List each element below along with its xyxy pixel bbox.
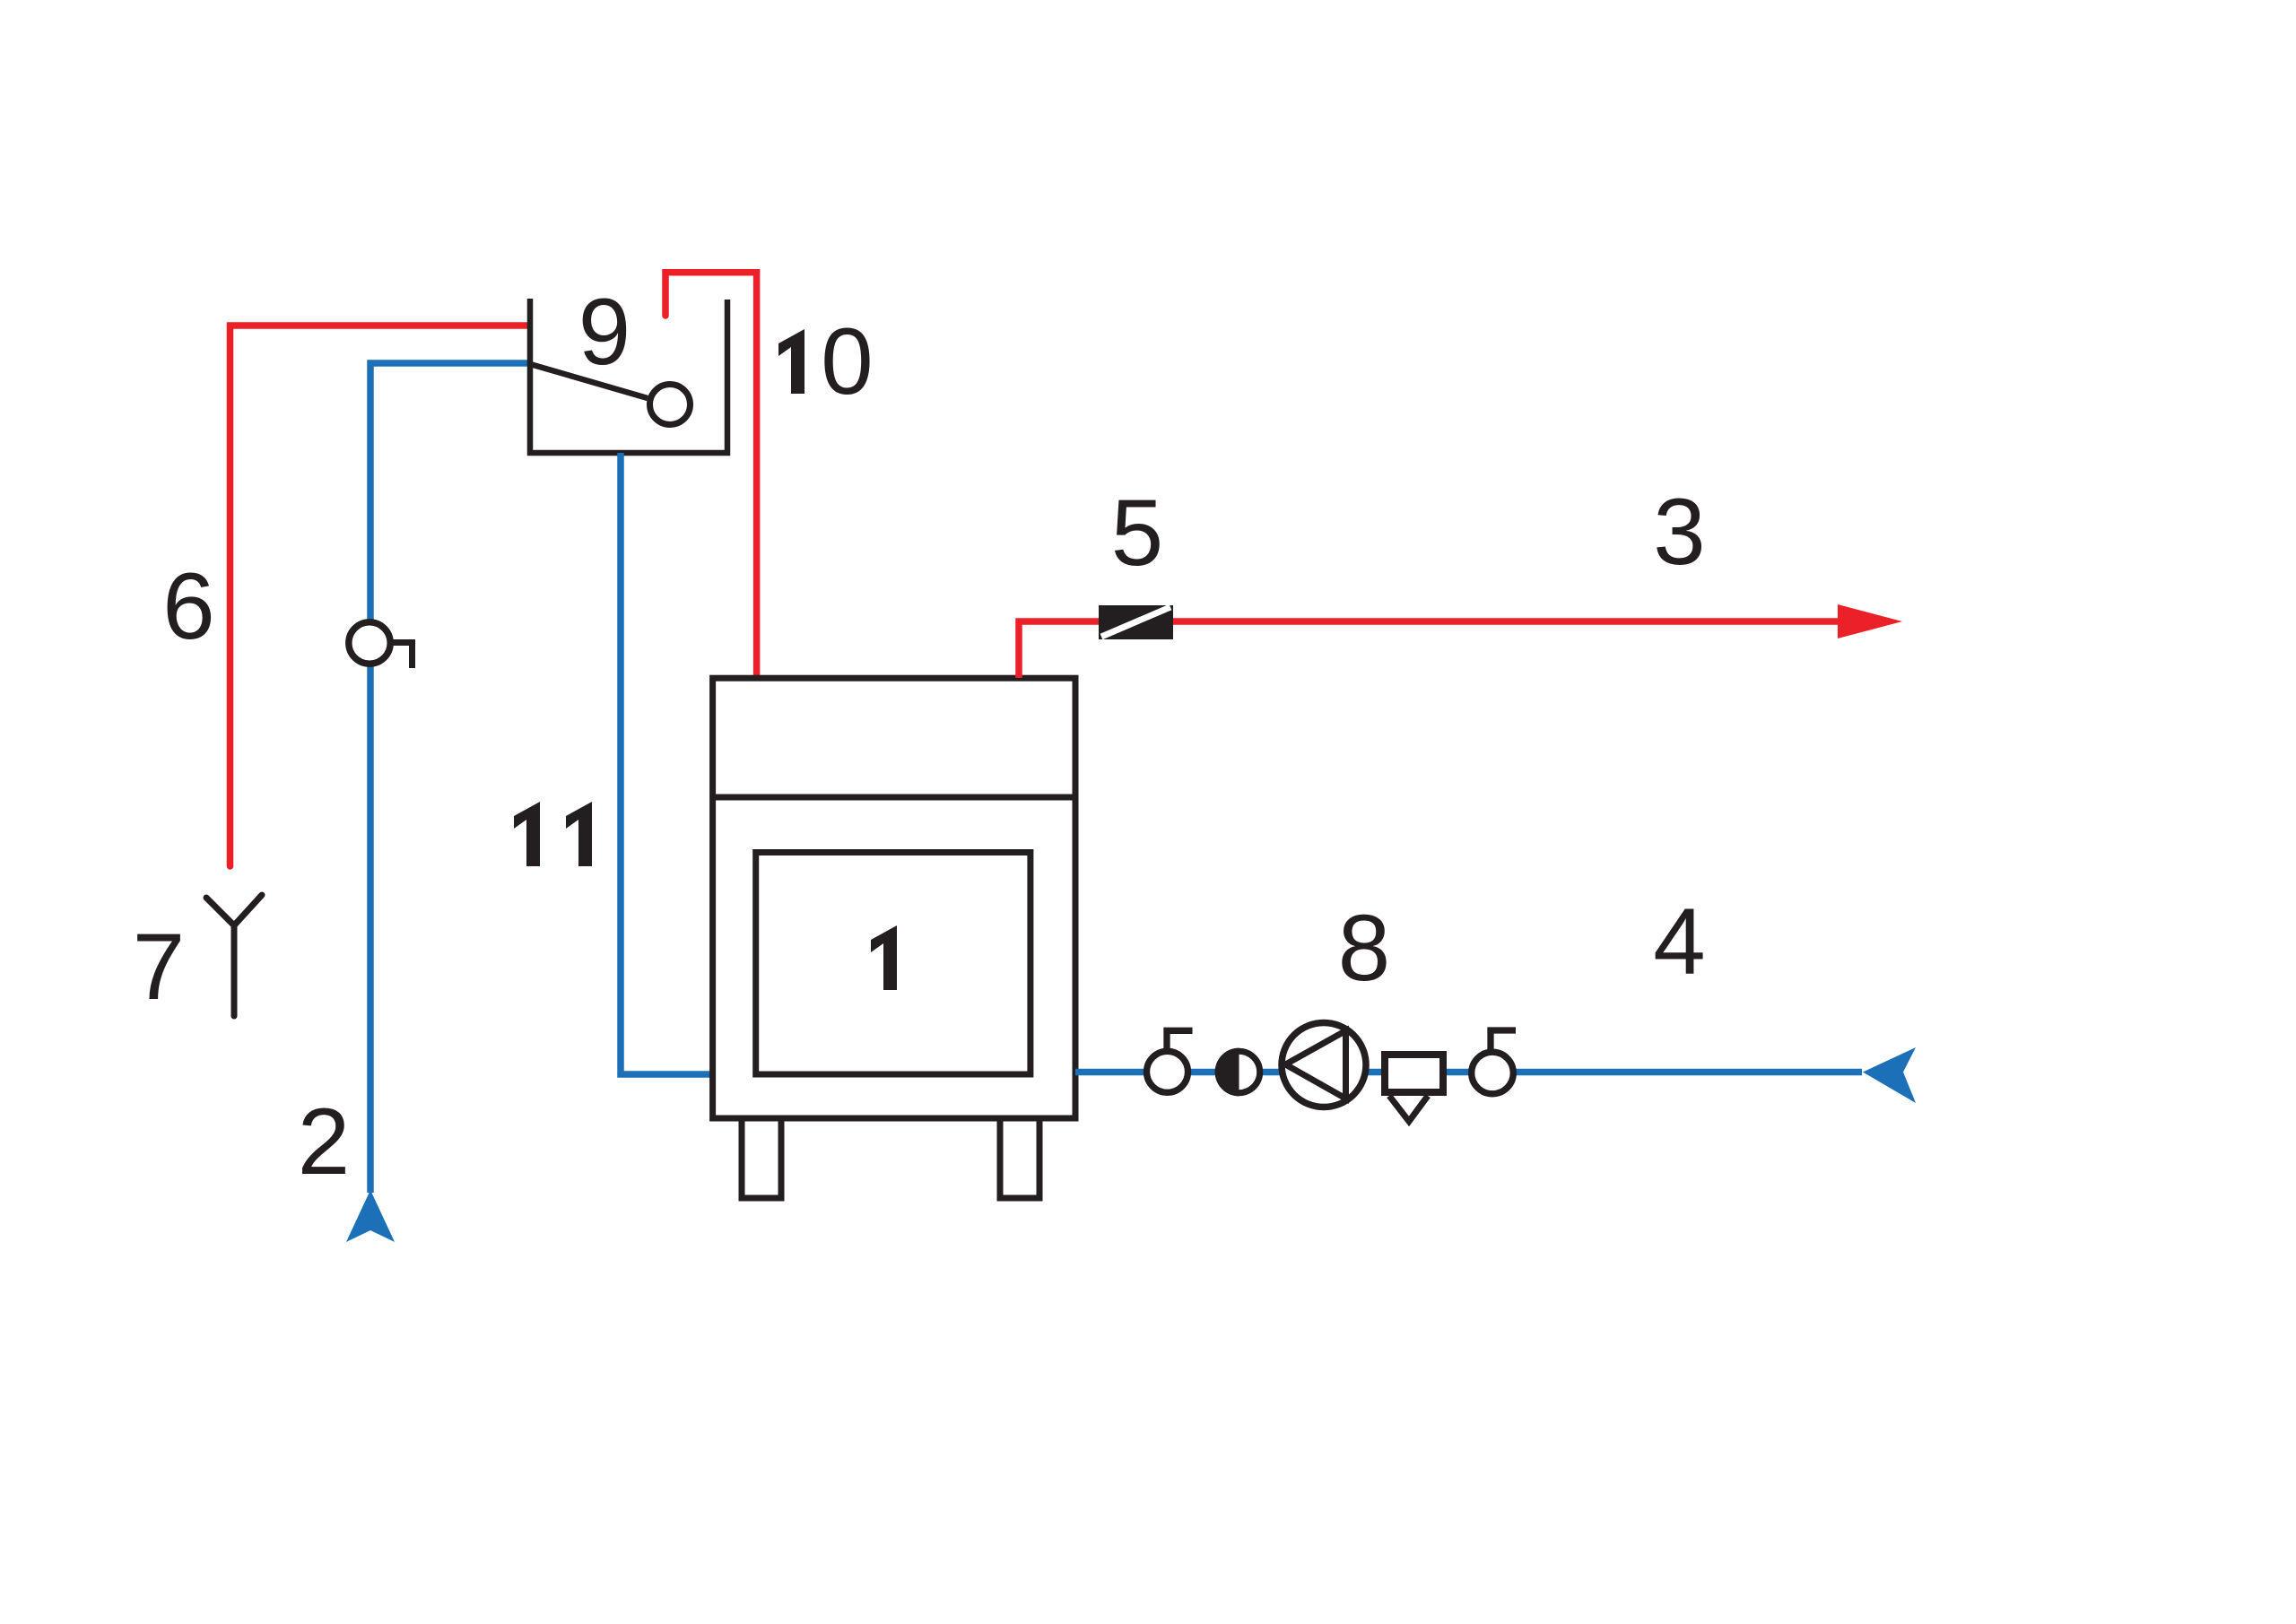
- boiler leg left: [742, 1118, 781, 1198]
- vent symbol 7: [206, 895, 262, 1016]
- boiler 1 divider line: [713, 795, 1075, 801]
- svg-text:6: 6: [162, 554, 214, 659]
- label 1: [871, 925, 897, 990]
- tank 9 (open expansion tank): [530, 299, 727, 453]
- svg-text:3: 3: [1653, 480, 1705, 585]
- valve V5 (ball valve right of filter): [1472, 1030, 1516, 1094]
- svg-text:2: 2: [298, 1090, 350, 1194]
- float valve in tank 9: [530, 364, 648, 398]
- arrow red supply arrow (pipe 3): [1838, 604, 1902, 638]
- filter / dirt trap: [1385, 1055, 1443, 1122]
- pump 8: [1282, 1023, 1366, 1107]
- boiler 1 firebox (inner square): [756, 853, 1031, 1075]
- svg-text:9: 9: [578, 280, 631, 385]
- wire blue pipe 4 (return line): [1075, 1069, 1862, 1076]
- wire blue pipe 11 (tank drain to boiler): [621, 453, 713, 1074]
- boiler leg right: [1000, 1118, 1039, 1198]
- valve V3 (ball valve left of pump): [1147, 1030, 1193, 1092]
- wire red pipe 10 (boiler to tank fill): [665, 273, 757, 678]
- svg-text:4: 4: [1653, 890, 1705, 994]
- wire blue pipe 2 (feed water): [370, 363, 530, 1193]
- arrow blue return arrow (pipe 4): [1863, 1047, 1916, 1103]
- valve V4 (half-shaded check valve): [1215, 1048, 1260, 1097]
- wire red pipe 3 (hot supply out): [1019, 621, 1838, 678]
- svg-text:5: 5: [1111, 481, 1163, 586]
- valve V2 on pipe 2: [349, 622, 413, 668]
- svg-text:7: 7: [133, 915, 185, 1020]
- boiler 1 outer body: [713, 678, 1075, 1118]
- arrow blue feed arrow (pipe 2): [346, 1190, 395, 1242]
- check valve 5: [1099, 605, 1173, 639]
- label 10: [778, 329, 804, 394]
- label 11: [514, 802, 540, 866]
- svg-text:0: 0: [821, 309, 873, 414]
- wire red pipe 6 (tank to vent): [230, 326, 531, 863]
- svg-text:8: 8: [1338, 896, 1390, 1001]
